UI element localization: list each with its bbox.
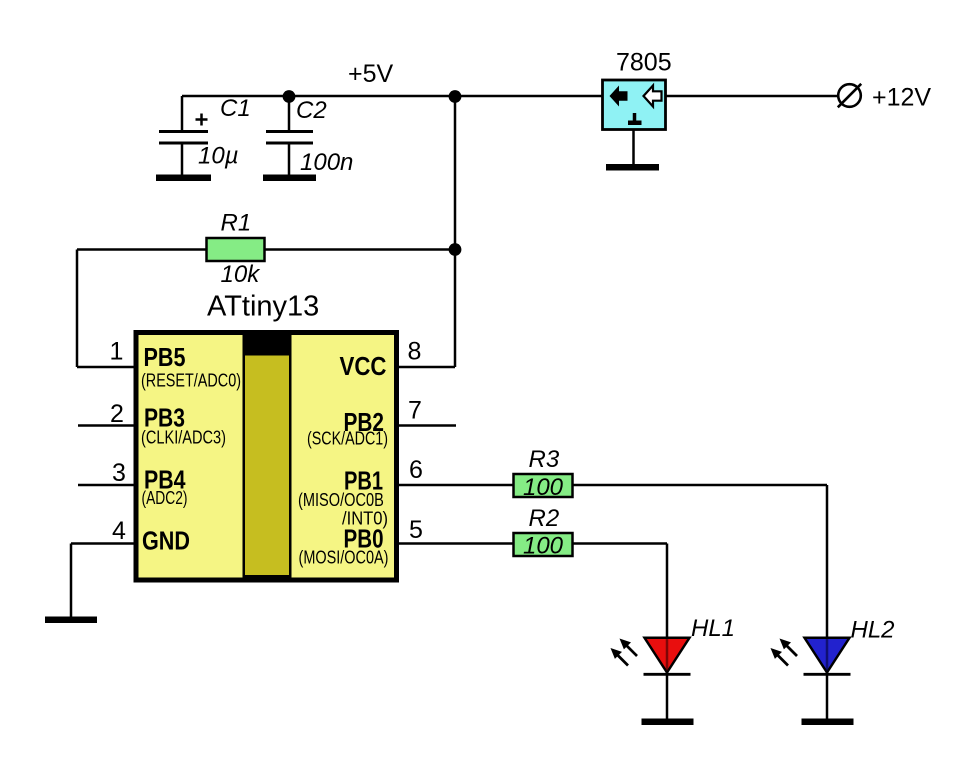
svg-text:10k: 10k	[221, 261, 262, 288]
svg-text:C1: C1	[220, 95, 251, 122]
svg-text:100: 100	[523, 533, 564, 560]
svg-text:ATtiny13: ATtiny13	[207, 291, 319, 323]
svg-text:8: 8	[408, 338, 422, 366]
svg-text:C2: C2	[296, 97, 327, 124]
svg-text:7805: 7805	[616, 49, 672, 77]
svg-text:R2: R2	[529, 505, 560, 532]
svg-text:7: 7	[408, 397, 422, 425]
svg-text:R1: R1	[221, 210, 252, 237]
svg-text:(MOSI/OC0A): (MOSI/OC0A)	[299, 548, 389, 568]
svg-text:VCC: VCC	[340, 351, 387, 381]
svg-text:(MISO/OC0B: (MISO/OC0B	[298, 490, 384, 510]
svg-text:(RESET/ADC0): (RESET/ADC0)	[141, 370, 241, 390]
svg-text:100n: 100n	[300, 149, 353, 176]
svg-text:+5V: +5V	[348, 60, 394, 88]
svg-text:GND: GND	[142, 526, 190, 556]
svg-text:5: 5	[409, 516, 423, 544]
svg-text:2: 2	[110, 400, 124, 428]
svg-text:10µ: 10µ	[198, 143, 239, 170]
svg-text:R3: R3	[529, 446, 560, 473]
svg-text:(SCK/ADC1): (SCK/ADC1)	[307, 429, 388, 449]
svg-text:4: 4	[112, 517, 126, 545]
svg-text:3: 3	[112, 459, 126, 487]
svg-text:HL2: HL2	[851, 617, 895, 644]
svg-text:(CLKI/ADC3): (CLKI/ADC3)	[141, 428, 226, 448]
svg-text:+12V: +12V	[872, 84, 931, 112]
svg-text:HL1: HL1	[691, 615, 735, 642]
svg-text:(ADC2): (ADC2)	[142, 488, 188, 508]
svg-text:1: 1	[110, 338, 124, 366]
svg-text:6: 6	[409, 456, 423, 484]
svg-text:PB5: PB5	[144, 342, 186, 372]
svg-text:100: 100	[523, 474, 564, 501]
